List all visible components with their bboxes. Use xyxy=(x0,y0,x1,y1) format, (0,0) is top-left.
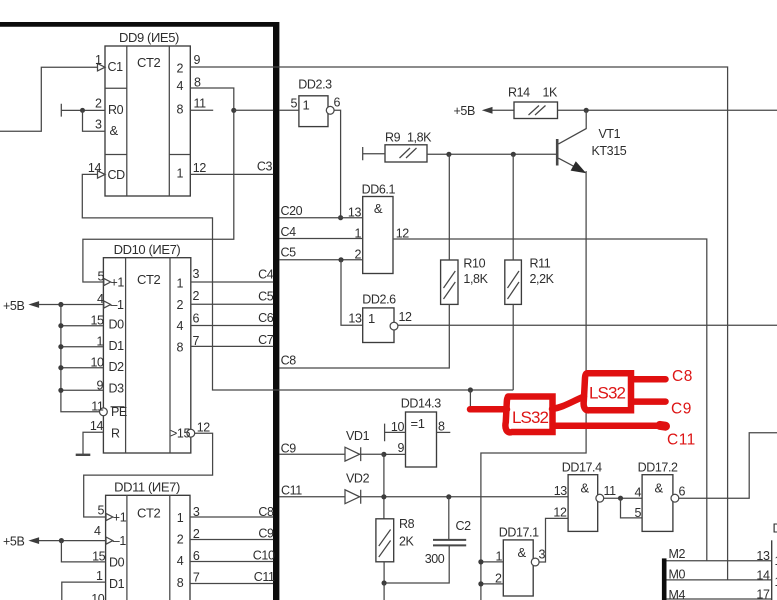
svg-text:4: 4 xyxy=(94,524,101,538)
svg-text:&: & xyxy=(581,481,590,496)
DD10 +1 input triangle xyxy=(104,278,111,285)
R14 hatch marks xyxy=(529,106,546,116)
svg-text:13: 13 xyxy=(554,484,568,498)
wire: DD17.1 pin2 xyxy=(481,583,503,585)
svg-text:13: 13 xyxy=(348,312,362,326)
svg-text:3: 3 xyxy=(95,118,102,132)
VT1 emitter arrow head xyxy=(571,161,587,173)
svg-text:D1: D1 xyxy=(109,577,125,591)
resistor R9 box xyxy=(385,145,427,162)
svg-text:C4: C4 xyxy=(258,268,274,282)
junction dot VD2/R8 xyxy=(381,494,386,499)
svg-text:C7: C7 xyxy=(258,333,274,347)
svg-text:3: 3 xyxy=(539,548,546,562)
svg-text:+1: +1 xyxy=(113,511,127,525)
inverter DD2.3 box xyxy=(299,96,328,127)
wire: DD11 D1 from bottom edge xyxy=(62,582,106,600)
DD10 column separators xyxy=(126,258,170,453)
svg-text:8: 8 xyxy=(194,76,201,90)
svg-text:10: 10 xyxy=(90,356,104,370)
wire: jog to DD11 D0 pin15 xyxy=(61,541,105,562)
svg-text:C9: C9 xyxy=(258,527,274,541)
red annotation: C11 line end blob xyxy=(660,421,666,431)
wire: tap D2 xyxy=(61,367,104,369)
svg-text:11: 11 xyxy=(194,97,207,111)
junction dot D3 xyxy=(58,388,63,393)
svg-text:DD2.6: DD2.6 xyxy=(362,293,396,307)
wire: DD9 pin9 output long line to right border down to M0 xyxy=(190,67,727,580)
svg-text:R9: R9 xyxy=(385,131,401,145)
DD11 +1 input triangle xyxy=(106,513,113,520)
svg-text:3: 3 xyxy=(193,505,200,519)
counter DD11 box xyxy=(106,495,190,600)
wire: R8 bottom lead to C2 bottom xyxy=(384,546,449,583)
svg-text:2,2K: 2,2K xyxy=(530,272,555,286)
DD10 >15 output bubble xyxy=(187,429,195,437)
wire: +5B arrow bottom xyxy=(39,540,106,542)
svg-text:DD17.2: DD17.2 xyxy=(638,461,678,475)
wire: tap D1 xyxy=(61,346,104,348)
wire: VT1 emitter down, left, down to VD2 line xyxy=(481,171,586,600)
svg-text:C2: C2 xyxy=(456,519,472,533)
svg-text:C9: C9 xyxy=(671,401,692,418)
wire: DD17.4 pin11 output to DD17.2 pin4 xyxy=(604,497,642,499)
counter DD10 box xyxy=(103,258,190,453)
junction dot on C5 line xyxy=(338,257,343,262)
wire: DD6.1 pin12 output right then down to M2 xyxy=(393,239,707,561)
svg-text:DD17.1: DD17.1 xyxy=(499,526,539,540)
svg-text:VD2: VD2 xyxy=(346,472,370,486)
wire: DD17.2 pin6 output up and out right edge xyxy=(679,433,777,498)
svg-text:–1: –1 xyxy=(113,534,127,548)
gate DD17.1 box xyxy=(503,540,533,596)
wire: branch to DD17.2 pin5 xyxy=(621,498,643,518)
DD9 column separators xyxy=(127,46,170,196)
resistor R8 box xyxy=(376,519,394,562)
svg-text:15: 15 xyxy=(92,550,106,564)
svg-text:12: 12 xyxy=(396,227,410,241)
inverter DD2.6 box xyxy=(363,308,394,343)
wire: R9 left lead with open T end xyxy=(363,147,385,160)
svg-text:C8: C8 xyxy=(281,354,297,368)
svg-text:5: 5 xyxy=(634,506,641,520)
svg-text:C8: C8 xyxy=(258,505,274,519)
wire: M2 line xyxy=(667,560,772,562)
svg-text:C5: C5 xyxy=(258,290,274,304)
junction dot D2 xyxy=(58,365,63,370)
+5B top arrow head xyxy=(482,107,493,114)
capacitor C2 plates xyxy=(433,540,466,546)
svg-text:14: 14 xyxy=(90,419,104,433)
wire: DD2.3 pin6 output down to C20 line xyxy=(334,110,341,217)
diode VD1 symbol xyxy=(345,447,361,461)
R11 hatch marks xyxy=(508,271,520,299)
svg-text:6: 6 xyxy=(334,96,341,110)
svg-text:C1: C1 xyxy=(108,60,124,74)
svg-text:C11: C11 xyxy=(281,484,302,498)
wire: DD9 pin12 output to border, node C3 xyxy=(190,173,273,175)
wire: DD14.3 pin10 with open T end xyxy=(385,424,406,442)
DD10 PE overline xyxy=(111,406,125,408)
svg-text:9: 9 xyxy=(397,441,404,455)
svg-text:&: & xyxy=(110,123,119,138)
svg-text:6: 6 xyxy=(193,549,200,563)
svg-text:DD14.3: DD14.3 xyxy=(401,397,441,411)
svg-text:2: 2 xyxy=(177,533,184,547)
VT1 collector lead xyxy=(559,110,587,144)
DD17.4 output bubble xyxy=(596,494,604,502)
wire: vertical from pin9 dot down through VD2 line to R8 xyxy=(383,454,385,518)
wire: C2 top lead xyxy=(448,497,450,539)
wire: DD2.6 pin12 output long line to right edge xyxy=(398,324,777,326)
svg-text:DD2.3: DD2.3 xyxy=(298,78,332,92)
svg-text:LS32: LS32 xyxy=(512,408,549,427)
wire: node C9 through VD1 to pin9 dot xyxy=(279,453,384,455)
wire: node C11 through VD2 to DD17.4 pin13 xyxy=(279,496,568,498)
svg-text:D1: D1 xyxy=(109,339,125,353)
wire: tap D0 xyxy=(61,325,104,327)
ground bar xyxy=(76,454,91,456)
wire: R10 top lead xyxy=(448,154,450,260)
svg-text:2: 2 xyxy=(193,527,200,541)
svg-text:D: D xyxy=(773,522,777,536)
svg-text:300: 300 xyxy=(425,552,445,566)
wire: C5 branch down to DD2.6 pin13 xyxy=(341,260,363,326)
DD2.3 output bubble xyxy=(326,106,334,114)
junction dot on y390 line xyxy=(468,387,473,392)
transistor VT1 base bar xyxy=(556,139,559,166)
svg-text:5: 5 xyxy=(97,504,104,518)
svg-text:2: 2 xyxy=(95,97,102,111)
DD10 PE bubble xyxy=(100,408,108,416)
svg-text:1: 1 xyxy=(96,569,103,583)
DD11 -1 input triangle xyxy=(106,537,113,544)
diode VD2 symbol xyxy=(345,490,361,504)
svg-text:DD10 (ИЕ7): DD10 (ИЕ7) xyxy=(114,242,181,257)
svg-text:VD1: VD1 xyxy=(346,429,370,443)
svg-text:6: 6 xyxy=(679,485,686,499)
svg-text:4: 4 xyxy=(177,319,184,333)
svg-text:8: 8 xyxy=(177,576,184,590)
svg-text:M4: M4 xyxy=(669,588,686,600)
svg-text:5: 5 xyxy=(290,97,297,111)
svg-text:13: 13 xyxy=(348,206,362,220)
frame: top thick border xyxy=(0,22,279,27)
DD2.6 output bubble xyxy=(390,322,398,330)
svg-text:+5B: +5B xyxy=(454,104,475,118)
svg-text:R14: R14 xyxy=(508,86,530,100)
svg-text:C3: C3 xyxy=(257,160,273,174)
wire: +5B arrow to R14 (top) xyxy=(492,109,514,111)
svg-text:7: 7 xyxy=(193,571,200,585)
bus bar M (thick) xyxy=(662,558,667,600)
red annotation: C9 line xyxy=(632,398,666,405)
wire: DD17.1 pin3 output up to DD17.4 pin12 xyxy=(539,518,568,562)
junction dot pin2 xyxy=(478,581,483,586)
DD9 pin1 C1 input triangle xyxy=(98,64,106,71)
wire: M0 line xyxy=(667,579,772,581)
junction dot pin4/pin5 xyxy=(618,496,623,501)
svg-text:12: 12 xyxy=(193,161,207,175)
svg-text:4: 4 xyxy=(97,292,104,306)
next chip box edge (cut at right) xyxy=(771,540,773,600)
svg-text:C11: C11 xyxy=(254,570,275,584)
svg-text:7: 7 xyxy=(193,334,200,348)
svg-text:14: 14 xyxy=(756,568,770,582)
svg-text:R: R xyxy=(111,427,120,441)
junction dot pin1 xyxy=(478,559,483,564)
svg-text:8: 8 xyxy=(177,341,184,355)
junction dot R8 bottom xyxy=(382,580,387,585)
svg-text:C5: C5 xyxy=(281,246,297,260)
svg-text:CT2: CT2 xyxy=(137,55,161,70)
svg-text:+5B: +5B xyxy=(3,535,24,549)
svg-text:13: 13 xyxy=(756,549,770,563)
svg-text:C9: C9 xyxy=(281,442,297,456)
junction dot base/R10 xyxy=(446,152,451,157)
xor DD14.3 box xyxy=(406,412,437,467)
svg-text:9: 9 xyxy=(96,379,103,393)
svg-text:1: 1 xyxy=(177,277,184,291)
junction dot base/R11 xyxy=(511,152,516,157)
junction dot VT1 collector xyxy=(584,108,589,113)
svg-text:&: & xyxy=(655,481,664,496)
wire: D-input chain down to PE xyxy=(61,305,100,412)
junction dot D0 xyxy=(58,323,63,328)
wire: DD17.1 pin1 xyxy=(481,561,503,563)
svg-text:R11: R11 xyxy=(530,257,551,271)
wire: DD11 outputs to border C8..C11 xyxy=(190,517,273,584)
svg-text:R0: R0 xyxy=(108,103,124,117)
counter DD9 box xyxy=(105,46,190,196)
svg-text:12: 12 xyxy=(197,421,211,435)
svg-text:4: 4 xyxy=(177,79,184,93)
svg-text:CT2: CT2 xyxy=(137,272,161,287)
R10 hatch marks xyxy=(444,271,456,299)
wire: DD10 pin14 R to ground xyxy=(83,432,103,454)
svg-text:&: & xyxy=(374,201,383,216)
svg-text:1: 1 xyxy=(368,311,375,326)
gate DD17.2 box xyxy=(642,475,673,532)
resistor R14 box xyxy=(514,102,558,119)
wire: tap D3 xyxy=(61,389,104,391)
wire: DD9 R0 pin2 with open T end xyxy=(61,104,105,117)
wire: node C20 to DD6.1 pin13 xyxy=(279,217,362,219)
svg-text:R8: R8 xyxy=(399,517,415,531)
wire: DD9 CD feedback to node at x212.5 and long line y390 to R11 bottom xyxy=(82,174,513,390)
junction dot DD9 pin8 net to DD2.3 xyxy=(231,108,236,113)
junction dot VD2/C2 xyxy=(446,494,451,499)
DD9 pin14 CD input triangle xyxy=(98,171,106,178)
svg-text:2: 2 xyxy=(177,298,184,312)
wire: stub from y390 dot down to red annotation xyxy=(469,390,471,410)
svg-text:11: 11 xyxy=(91,400,104,414)
resistor R10 box xyxy=(441,260,458,304)
wire: R9 to VT1 base xyxy=(427,153,557,155)
R8 hatch marks xyxy=(379,530,391,558)
svg-text:C20: C20 xyxy=(281,204,303,218)
svg-text:C8: C8 xyxy=(672,368,693,385)
svg-text:1,8K: 1,8K xyxy=(463,272,488,286)
svg-text:8: 8 xyxy=(177,103,184,117)
wire: DD9 pin11 open stub xyxy=(190,109,213,111)
svg-text:3: 3 xyxy=(193,267,200,281)
junction dot VD1/pin9 xyxy=(381,452,386,457)
DD10 -1 input triangle xyxy=(104,301,111,308)
DD11 column separators xyxy=(127,495,170,600)
junction dot +5B bottom xyxy=(59,538,64,543)
wire: DD14.3 pin8 stub xyxy=(437,431,451,433)
wire: M4 line xyxy=(667,598,772,600)
svg-text:2: 2 xyxy=(495,572,502,586)
wire: node C4 to DD6.1 pin1 xyxy=(279,238,362,240)
svg-text:&: & xyxy=(518,545,527,560)
wire: DD9 C1 input from left edge xyxy=(0,67,98,131)
svg-text:DD17.4: DD17.4 xyxy=(562,461,602,475)
svg-text:12: 12 xyxy=(553,506,567,520)
wire: DD10 pin12 output elbow down to DD11 +1 xyxy=(84,433,213,517)
svg-text:D0: D0 xyxy=(109,318,125,332)
svg-text:1: 1 xyxy=(177,167,184,181)
DD9 row separators xyxy=(105,88,190,154)
svg-text:1: 1 xyxy=(495,550,502,564)
svg-text:CT2: CT2 xyxy=(137,506,161,521)
svg-text:DD6.1: DD6.1 xyxy=(362,183,396,197)
gate DD17.4 box xyxy=(568,475,598,532)
svg-text:D2: D2 xyxy=(109,360,125,374)
svg-text:>15: >15 xyxy=(170,427,190,441)
svg-text:+5B: +5B xyxy=(3,299,24,313)
svg-text:DD9 (ИЕ5): DD9 (ИЕ5) xyxy=(119,30,179,45)
svg-text:R10: R10 xyxy=(463,257,485,271)
red annotation: C11 line xyxy=(554,423,664,430)
svg-text:9: 9 xyxy=(194,53,201,67)
svg-text:C11: C11 xyxy=(667,432,696,449)
svg-text:15: 15 xyxy=(90,314,104,328)
svg-text:1: 1 xyxy=(96,335,103,349)
R9 hatch marks xyxy=(400,148,417,158)
svg-text:10: 10 xyxy=(91,592,105,600)
svg-text:1: 1 xyxy=(303,98,310,113)
svg-text:CD: CD xyxy=(108,168,126,182)
junction dot +5B/D-chain xyxy=(58,302,63,307)
wire: DD2.3 pin5 input from border xyxy=(279,109,299,111)
junction dot D1 xyxy=(58,344,63,349)
junction dot on C20 line xyxy=(338,215,343,220)
svg-text:2: 2 xyxy=(177,62,184,76)
red annotation: C8 line xyxy=(632,376,666,383)
svg-text:4: 4 xyxy=(177,554,184,568)
gate DD6.1 box xyxy=(363,197,393,274)
svg-text:2K: 2K xyxy=(399,535,415,549)
svg-text:–1: –1 xyxy=(111,298,125,312)
frame: vertical thick border (page cut) xyxy=(273,22,279,600)
junction dot DD9 pin2/pin3 xyxy=(80,108,85,113)
wire: DD9 pin3 jog xyxy=(83,110,106,131)
red annotation: right LS32 box xyxy=(584,373,631,410)
svg-text:1K: 1K xyxy=(543,86,559,100)
wire: continues off bottom edge xyxy=(383,583,385,600)
svg-text:1: 1 xyxy=(177,511,184,525)
svg-text:2: 2 xyxy=(354,248,361,262)
svg-text:11: 11 xyxy=(604,484,617,498)
svg-text:12: 12 xyxy=(399,310,413,324)
wire: DD10 outputs to border C4..C7 xyxy=(191,282,273,346)
wire: R11 bottom lead xyxy=(512,304,514,390)
wire: R10 bottom lead to node C8 line xyxy=(279,304,449,368)
svg-text:10: 10 xyxy=(391,420,405,434)
red annotation: connector stroke between boxes xyxy=(552,397,584,410)
svg-text:M0: M0 xyxy=(669,568,686,582)
svg-text:LS32: LS32 xyxy=(589,384,626,403)
svg-text:D0: D0 xyxy=(109,556,125,570)
svg-text:C10: C10 xyxy=(253,549,275,563)
wire: R11 top lead xyxy=(512,154,514,260)
DD17.1 output bubble xyxy=(531,558,539,566)
svg-text:DD11 (ИЕ7): DD11 (ИЕ7) xyxy=(114,480,180,495)
wire: node C5 to DD6.1 pin2 xyxy=(279,259,362,261)
svg-text:M2: M2 xyxy=(669,547,686,561)
svg-text:D3: D3 xyxy=(109,382,125,396)
svg-text:C6: C6 xyxy=(258,311,274,325)
+5B bottom arrow head xyxy=(28,537,39,544)
wire: DD14.3 pin9 xyxy=(384,453,406,455)
svg-text:+1: +1 xyxy=(111,276,125,290)
svg-text:C4: C4 xyxy=(281,225,297,239)
svg-text:2: 2 xyxy=(193,289,200,303)
wire: R14 to VT1 collector node, to right edge xyxy=(558,109,777,111)
svg-text:KT315: KT315 xyxy=(592,144,627,158)
wire: +5B arrow mid xyxy=(39,304,104,306)
red annotation: feed line into left box xyxy=(470,406,507,413)
resistor R11 box xyxy=(505,260,522,304)
svg-text:4: 4 xyxy=(634,486,641,500)
svg-text:1: 1 xyxy=(95,53,102,67)
DD17.2 output bubble xyxy=(671,494,679,502)
+5B mid arrow head xyxy=(28,301,39,308)
red annotation: left LS32 box xyxy=(505,397,552,433)
VT1 emitter lead xyxy=(559,158,585,172)
svg-text:14: 14 xyxy=(88,161,102,175)
svg-text:=1: =1 xyxy=(411,416,425,431)
svg-text:1,8K: 1,8K xyxy=(407,131,432,145)
svg-text:5: 5 xyxy=(97,270,104,284)
svg-text:8: 8 xyxy=(438,420,445,434)
svg-text:6: 6 xyxy=(193,312,200,326)
svg-text:17: 17 xyxy=(756,588,770,600)
svg-text:VT1: VT1 xyxy=(599,127,621,141)
wire: DD9 pin8 output elbow down-left to DD10 +1 xyxy=(83,88,234,282)
svg-text:1: 1 xyxy=(354,227,361,241)
wire: tap to thick border xyxy=(234,109,273,111)
